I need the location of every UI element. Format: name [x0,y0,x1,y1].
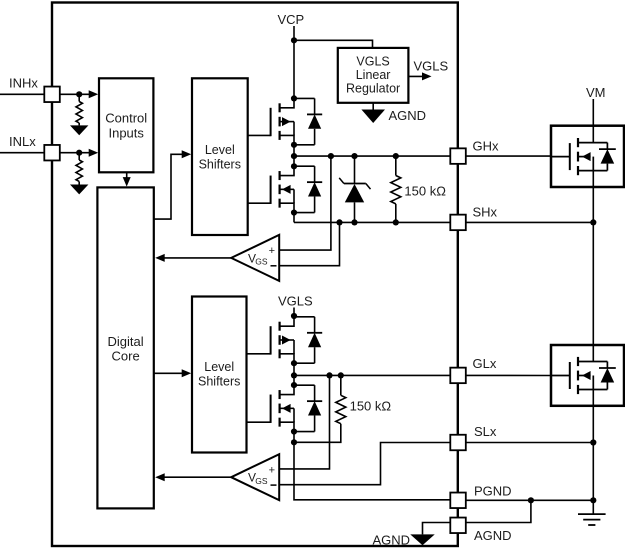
wire AGND pin to PGND branch [466,500,531,522]
value label R1 150 kOhm [404,183,446,198]
wire Digital Core to low-side Level Shifters [154,372,186,374]
arrow into Control Inputs (INLx) [89,149,99,157]
svg-text:GLx: GLx [473,356,497,371]
junction INLx pulldown [76,150,82,156]
svg-text:GHx: GHx [473,138,500,153]
pin SLx [450,435,466,451]
junction SHx rail to comparator minus [336,219,342,225]
junction INHx pulldown [76,91,82,97]
wire GHx rail [294,155,450,157]
wire comparator minus sense (low side) [279,443,450,485]
svg-text:Regulator: Regulator [346,82,400,96]
svg-text:AGND: AGND [389,108,427,123]
wire AGND pin to analog ground [423,523,451,535]
op-amp VGS comparator (high side) [231,235,279,281]
pin SHx [450,215,466,231]
wire SLx to external source [466,442,594,444]
transistor low-side source FET [271,317,323,363]
wire VM to high-side power FET [592,99,594,143]
wire GLx to external gate [466,374,551,376]
ground AGND symbol (regulator) [361,110,385,124]
wire PGND to ground [466,499,594,501]
arrow into Control Inputs (INHx) [89,90,99,98]
junction HS upper drain [291,95,297,101]
junction HS lower source [291,209,297,215]
wire SLx rail stub to resistor [294,424,341,443]
arrow VGLS output [422,72,432,80]
svg-text:SHx: SHx [473,205,498,220]
svg-text:PGND: PGND [474,483,512,498]
wire regulator ground stub [372,103,374,110]
wire INLx lead-in [0,152,44,154]
wire HS lower source to SHx rail [293,213,295,223]
block Level Shifters (low side) [192,297,247,453]
IC boundary box [52,3,458,547]
node VCP label [278,12,305,27]
node VGLS supply label (low side) [278,294,313,309]
svg-text:Digital: Digital [108,334,144,349]
transistor high-side source FET [271,98,323,144]
pin AGND label [474,528,512,543]
arrow into Digital Core (low side VGS) [155,473,165,481]
junction resistor R1 bottom [393,219,399,225]
svg-text:+: + [269,464,275,476]
junction external PGND node [590,497,596,503]
arrow into low-side Level Shifters [182,369,192,377]
pin PGND [450,493,466,509]
wire comparator minus sense [279,222,339,265]
block VGLS Linear Regulator U1 [338,48,409,103]
svg-text:Control: Control [105,111,147,126]
wire comparator plus sense (low side) [279,375,329,469]
transistor high-side sink FET [271,166,323,212]
wire LS lower source to SLx node [293,432,295,443]
pin GLx [450,368,466,384]
wire high-side gate lead (lower) [248,202,271,204]
ground PGND earth symbol [578,514,606,525]
wire INHx lead-in [0,93,44,95]
svg-text:INHx: INHx [9,76,38,91]
node VM label [586,85,606,100]
svg-text:AGND: AGND [372,532,410,547]
node AGND label (regulator) [389,108,427,123]
resistor INHx pulldown [76,94,82,125]
junction PGND branch [528,497,534,503]
resistor INLx pulldown [76,153,82,185]
diode zener D1 gate clamp [339,156,370,222]
wire VGS comparator output (high side) [162,257,231,259]
pin AGND [450,518,466,534]
node VGLS output label [414,58,449,73]
svg-text:150 kΩ: 150 kΩ [404,183,446,198]
pin INLx [44,145,60,161]
svg-text:Inputs: Inputs [108,125,144,140]
wire VGS comparator output (low side) [162,476,231,478]
svg-text:Shifters: Shifters [199,157,241,171]
wire Digital Core to high-side Level Shifters [154,154,186,219]
arrow into Digital Core [123,177,131,187]
transistor Q2 external low-side FET [551,357,616,394]
wire INLx to Control Inputs [60,152,92,154]
pin PGND label [474,483,512,498]
node INLx label [9,134,36,149]
svg-text:Level: Level [205,143,235,157]
arrow into Digital Core (high side VGS) [155,254,165,262]
svg-text:VGLS: VGLS [356,55,389,69]
node INHx label [9,76,38,91]
wire INHx to Control Inputs [60,93,92,95]
module box external high-side FET [551,126,624,187]
svg-text:VGLS: VGLS [278,294,313,309]
block Digital Core [97,187,153,508]
junction LS lower drain [291,382,297,388]
wire SHx to phase node [466,221,594,223]
svg-text:GS: GS [255,257,268,267]
op-amp VGS comparator (low side) [231,454,279,500]
svg-text:VGLS: VGLS [414,58,449,73]
node AGND label (bottom) [372,532,410,547]
block Level Shifters (high side) [192,78,248,235]
wire VCP vertical [293,26,295,98]
svg-text:VCP: VCP [278,12,305,27]
junction LS lower source [291,428,297,434]
junction phase node SHx [590,219,596,225]
wire LS source to PGND [294,442,450,500]
pin GHx label [473,138,500,153]
junction external SLx node [590,439,596,445]
wire GHx to external gate [466,155,551,157]
junction GHx rail left [291,153,297,159]
pin SHx label [473,205,498,220]
svg-text:GS: GS [255,476,268,486]
junction GHx rail to comparator plus [328,153,334,159]
junction resistor R1 top [393,153,399,159]
wire Control Inputs to Digital Core [126,172,128,180]
resistor R1 150k gate-source [391,156,401,222]
wire LS upper source to GLx rail [293,363,295,385]
svg-text:Linear: Linear [356,68,391,82]
pin INHx [44,87,60,103]
junction VCP node [291,37,297,43]
svg-text:Level: Level [204,360,234,374]
wire VCP to VGLS regulator [294,40,373,48]
junction zener top [351,153,357,159]
wire GLx rail [294,374,450,376]
value label R2 150 kOhm [350,399,392,414]
junction LS upper drain [291,313,297,319]
transistor Q1 external high-side FET [551,138,616,175]
ground AGND symbol (INHx pulldown) [70,125,88,135]
svg-text:+: + [269,245,275,257]
arrow into high-side Level Shifters [182,150,192,158]
svg-text:SLx: SLx [474,424,497,439]
svg-text:INLx: INLx [9,134,36,149]
svg-text:150 kΩ: 150 kΩ [350,399,392,414]
block Control Inputs [99,78,153,172]
wire low-side gate lead (lower) [247,421,271,423]
ground AGND symbol (bottom) [410,534,435,545]
junction GLx rail left [291,372,297,378]
pin GHx [450,148,466,164]
wire VGLS to LS upper drain [293,308,295,317]
junction LS upper source [291,360,297,366]
transistor low-side sink FET [271,385,323,431]
wire HS upper source to GHx rail [293,145,295,167]
svg-text:VM: VM [586,85,606,100]
wire comparator plus sense [279,156,331,250]
junction SLx node [291,439,297,445]
wire high-side gate lead (upper) [248,134,271,136]
ground AGND symbol (INLx pulldown) [70,185,88,195]
junction GLx rail to comparator plus [326,372,332,378]
svg-text:Shifters: Shifters [198,375,240,389]
wire low-side gate lead (upper) [247,353,271,355]
module box external low-side FET [551,345,624,406]
junction HS lower drain [291,163,297,169]
wire external source to ground [592,390,594,515]
pin GLx label [473,356,497,371]
svg-text:AGND: AGND [474,528,512,543]
junction zener bottom [351,219,357,225]
wire SHx rail [294,221,450,223]
pin SLx label [474,424,497,439]
wire VGLS regulator output [408,75,424,77]
resistor R2 150k gate-source (low side) [336,375,346,423]
junction HS upper source [291,142,297,148]
junction resistor R2 top [338,372,344,378]
svg-text:Core: Core [112,349,140,364]
wire phase node vertical [592,171,594,362]
